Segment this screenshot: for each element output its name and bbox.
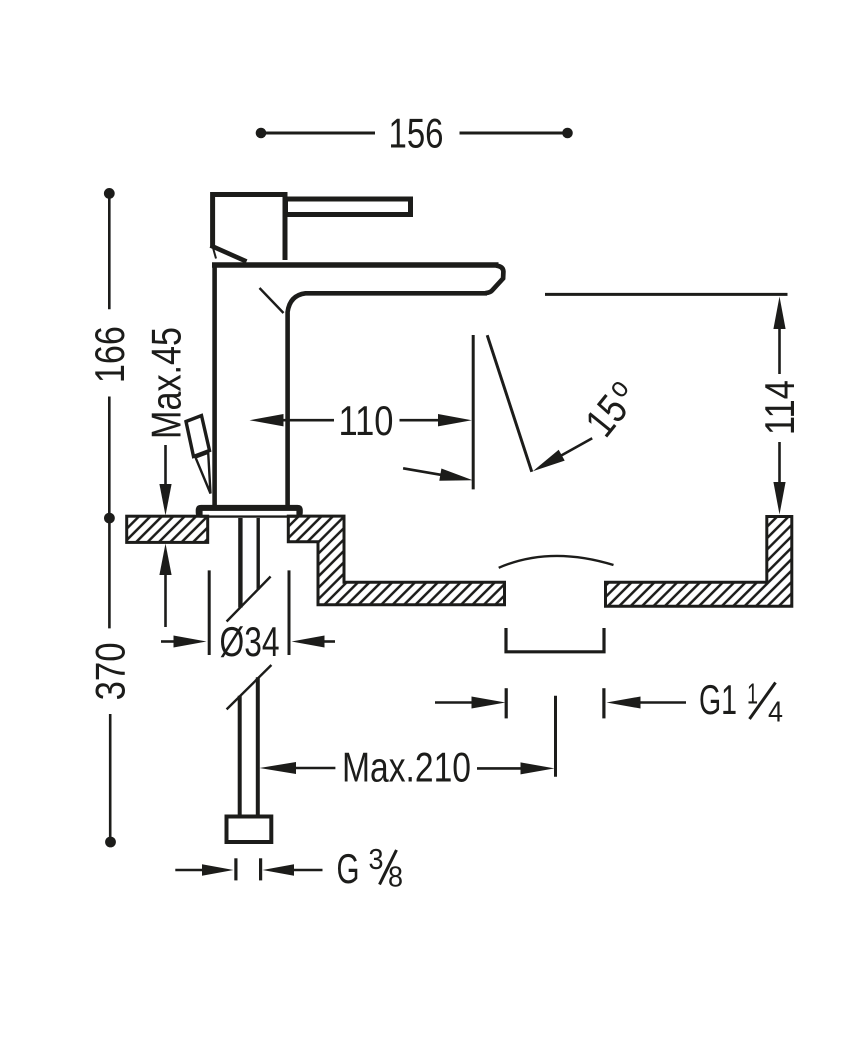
- angle 15deg leader arrow to slanted line: [559, 438, 592, 457]
- Max.45 lower arrow (points up to deck bottom): [164, 571, 167, 627]
- dimension G3/8 tick right: [259, 858, 262, 880]
- svg-text:110: 110: [339, 397, 394, 444]
- dimension G1 1/4 right arrow: [607, 697, 641, 709]
- svg-text:156: 156: [389, 110, 444, 157]
- handle block small sliver line: [213, 249, 216, 259]
- thin accent line on body/spout junction: [260, 288, 284, 313]
- svg-text:G1: G1: [699, 676, 737, 723]
- supply hose lower left line: [238, 696, 242, 817]
- dimension Max.210 drain centerline reference: [554, 696, 557, 777]
- hose break mark lower: [227, 665, 272, 709]
- dimension 156 (top overall width): [263, 132, 565, 135]
- dimension G3/8 left arrow: [175, 869, 206, 872]
- dimension O34 arrows and label: [161, 640, 177, 643]
- faucet handle block (cartridge housing): [213, 195, 285, 261]
- dimension G1 1/4 tick right: [602, 688, 605, 718]
- drain tailpiece stub (U shape): [506, 628, 604, 652]
- basin deck + bowl wall + bowl floor left-middle section (hatched Z profile): [288, 516, 504, 605]
- dimension 166 (height spout above deck) vertical line: [108, 196, 111, 515]
- dimension G3/8 tick left: [234, 858, 237, 880]
- hose end fitting (G3/8 nut): [227, 817, 272, 843]
- basin bowl floor + right wall section (hatched L profile): [606, 517, 792, 607]
- dimension O34 extension line right: [288, 570, 291, 655]
- supply hose upper right line: [257, 518, 260, 590]
- supply hose lower right line: [256, 677, 260, 817]
- faucet body left edge: [212, 263, 217, 506]
- dimension G1 1/4 left arrow: [435, 701, 475, 704]
- tilted lever accessory (pen-shaped, beside body): [186, 416, 211, 494]
- label 15deg (rotated): [576, 373, 647, 445]
- svg-text:370: 370: [87, 642, 134, 700]
- svg-text:Max.45: Max.45: [143, 327, 190, 439]
- svg-text:114: 114: [756, 380, 803, 435]
- svg-text:1: 1: [747, 679, 758, 711]
- body/handle seam and spout top edge: [212, 262, 499, 268]
- hose break mark upper: [227, 577, 271, 622]
- angle 15deg slanted stream line: [487, 335, 532, 472]
- dimension Max.210 right arrow (points to drain centerline): [477, 767, 524, 770]
- dot right end of 156: [562, 128, 573, 139]
- dimension 370 (depth below deck) vertical line: [108, 521, 111, 839]
- base flange (black bar with slot): [196, 505, 303, 518]
- dimension G1 1/4 tick left: [505, 688, 508, 718]
- lever handle arm: [286, 199, 411, 215]
- svg-text:G: G: [337, 845, 360, 892]
- Max.45 upper arrow (points down to deck top): [164, 445, 167, 490]
- dimension 114 (outlet height above rim): [778, 325, 781, 374]
- dot left end of 156: [256, 128, 267, 139]
- angle 15deg leader arrow to vertical line: [403, 468, 443, 475]
- dot bottom end of 370: [105, 837, 116, 848]
- dimension O34 extension line left: [208, 570, 211, 655]
- svg-text:4: 4: [768, 697, 783, 729]
- svg-text:Ø34: Ø34: [220, 618, 280, 665]
- svg-text:3: 3: [369, 844, 384, 876]
- svg-text:166: 166: [86, 326, 133, 383]
- dot top end of 166: [104, 188, 115, 199]
- supply hose upper left line: [238, 518, 242, 608]
- pop-up waste dome (arc over drain): [499, 556, 614, 568]
- basin deck left section (hatched): [127, 516, 208, 542]
- spout tip (right end, chamfered): [486, 266, 504, 294]
- svg-text:8: 8: [388, 862, 403, 894]
- spout underside and body right edge: [288, 293, 487, 505]
- dimension Max.210 left arrow (points to hose): [260, 762, 297, 774]
- svg-text:Max.210: Max.210: [342, 743, 471, 790]
- dimension 110 (spout reach): [280, 419, 334, 422]
- dimension 114 reference line (spout outlet level): [545, 293, 788, 296]
- dot middle (deck level, shared 166/370): [104, 513, 115, 524]
- dimension G3/8 right arrow: [263, 864, 295, 875]
- angle 15deg vertical reference line: [472, 335, 475, 489]
- handle block chamfered bottom-left edge: [211, 246, 247, 262]
